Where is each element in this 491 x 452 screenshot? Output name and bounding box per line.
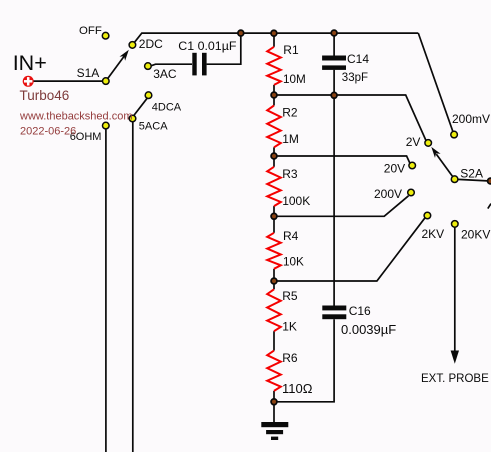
capacitor C16 [322,306,346,311]
switch S2A selector arrow [436,154,454,179]
svg-text:2DC: 2DC [139,37,163,51]
wire node R4R5 to 2KV contact [274,218,425,281]
resistor R6 [267,351,281,391]
contact S2A common [451,176,458,183]
svg-text:www.thebackshed.com: www.thebackshed.com [19,110,133,122]
wire top rail diagonal to 200mV contact [418,33,453,131]
resistor R3 [267,167,281,206]
svg-text:OFF: OFF [79,25,102,37]
svg-text:2KV: 2KV [422,227,445,241]
wire 3AC to C1 left plate [151,64,192,66]
node C14 bottom [331,92,337,98]
wire 6OHM down to bottom edge [105,129,107,452]
contact 3AC [145,63,152,70]
svg-text:S2A: S2A [460,166,483,180]
svg-text:R6: R6 [282,351,298,365]
node right edge [488,178,491,184]
svg-text:R5: R5 [282,289,298,303]
ground [261,422,288,427]
contact 20V [409,162,416,169]
svg-text:10M: 10M [283,73,306,86]
wire node R2R3 to 20V contact [274,156,410,163]
wire 20KV down to ext probe arrow [454,228,456,353]
wire node R3R4 to 200V contact [274,196,409,217]
terminal IN+ [23,76,34,87]
node R1/R2 [271,92,277,98]
svg-text:Turbo46: Turbo46 [20,88,70,103]
node ground [271,399,277,405]
svg-text:R3: R3 [282,167,298,181]
svg-text:S1A: S1A [77,66,100,80]
wire IN+ to S1A common [31,80,102,82]
contact 200mV [451,131,458,138]
wire 2DC contact to top rail [134,33,418,43]
node R4/R5 [271,278,277,284]
resistor R2 [267,106,281,148]
contact 2DC [129,42,136,49]
contact 2V [425,140,432,147]
svg-text:33pF: 33pF [342,72,368,84]
node top rail C1 junction [238,30,244,36]
contact 6OHM [103,122,110,129]
capacitor C1 [192,53,196,76]
svg-text:R2: R2 [282,105,298,119]
wire C16 bottom to ground node [274,319,334,402]
contact 2KV [424,212,431,219]
capacitor C14 [322,56,346,61]
contact OFF [102,32,109,39]
resistor R4 [267,233,281,269]
wire 4DCA to 5ACA [134,98,147,115]
svg-text:C1 0.01µF: C1 0.01µF [178,39,237,53]
contact 5ACA [129,115,136,122]
wire C14 bottom to C16 top [333,70,335,306]
contact S1A common [103,78,110,85]
svg-text:5ACA: 5ACA [139,121,168,133]
svg-text:1M: 1M [282,132,299,146]
node R3/R4 [271,213,277,219]
wire S2A common to right edge node [458,179,490,181]
svg-text:0.0039µF: 0.0039µF [341,322,396,337]
node top rail C14 [331,30,337,36]
svg-text:1K: 1K [282,319,297,333]
wire 5ACA down to bottom edge [132,122,134,452]
svg-text:20V: 20V [384,162,405,176]
wire stub right edge [488,204,491,209]
svg-text:10K: 10K [283,256,304,269]
svg-text:200mV: 200mV [452,112,490,126]
node R2/R3 [271,153,277,159]
svg-text:R4: R4 [283,229,299,243]
switch S1A selector arrow [106,56,125,81]
svg-text:2022-06-26: 2022-06-26 [20,126,76,138]
svg-text:100K: 100K [282,194,310,208]
svg-text:200V: 200V [374,187,402,201]
contact 20KV [452,221,459,228]
svg-text:EXT. PROBE: EXT. PROBE [421,373,489,385]
svg-text:R1: R1 [283,43,299,57]
wire node R1R2 to 2V contact [274,95,426,141]
svg-text:4DCA: 4DCA [152,102,182,114]
resistor R1 [267,47,281,85]
svg-text:IN+: IN+ [13,51,47,75]
svg-text:110Ω: 110Ω [282,381,313,396]
svg-text:2V: 2V [406,135,421,149]
contact 4DCA [145,92,152,99]
wire C1 right plate to top rail [207,33,241,64]
arrowhead ext probe [451,351,459,364]
svg-text:C14: C14 [347,52,369,66]
contact 200V [408,189,415,196]
wire resistor chain vertical segments [273,33,275,47]
wire C14 top lead [333,33,335,56]
resistor R5 [267,289,281,331]
svg-text:20KV: 20KV [461,227,490,241]
svg-text:C16: C16 [349,304,371,318]
svg-text:3AC: 3AC [153,67,177,81]
node top rail R1 [271,30,277,36]
